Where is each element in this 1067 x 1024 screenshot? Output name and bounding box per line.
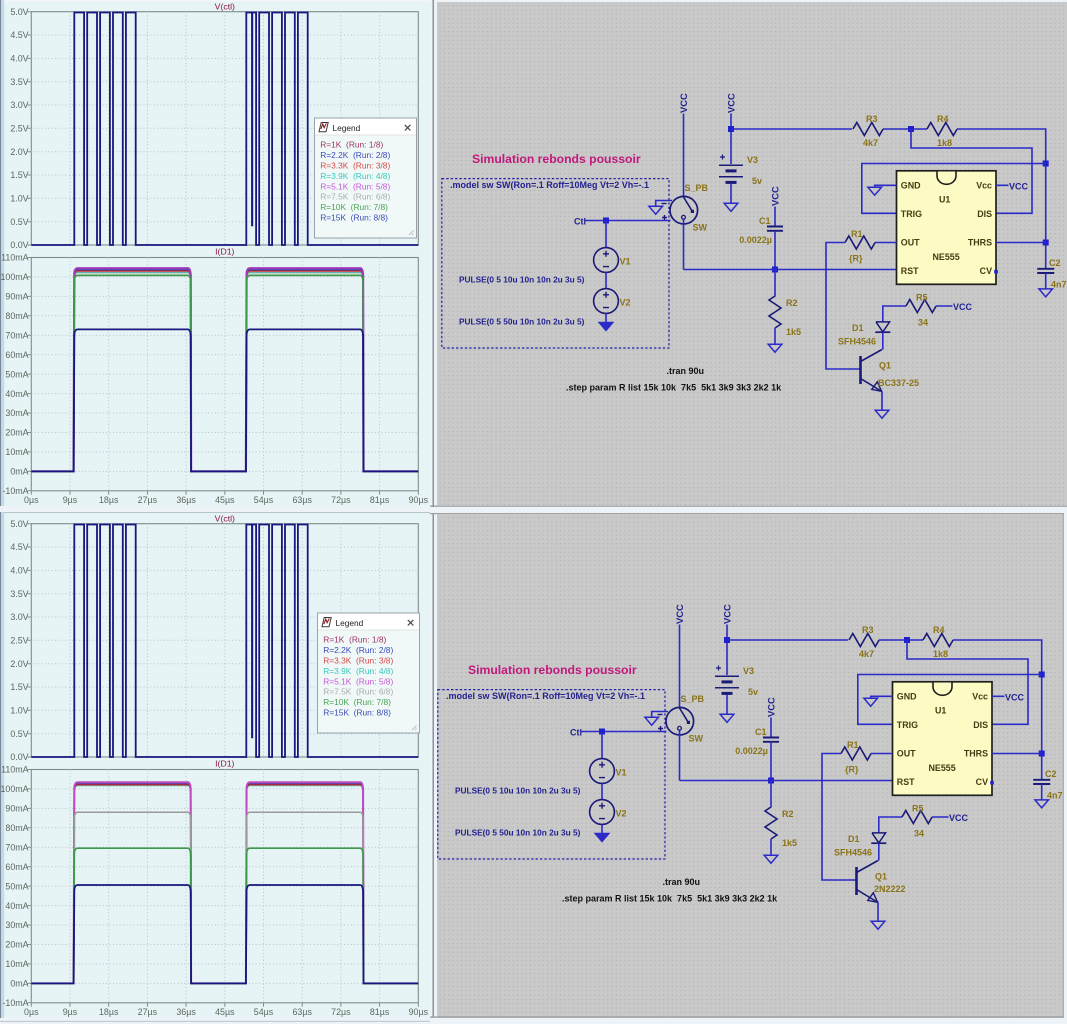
axis ticks <box>27 524 418 1007</box>
svg-text:0mA: 0mA <box>10 467 28 477</box>
svg-text:BC337-25: BC337-25 <box>878 378 919 388</box>
svg-text:30mA: 30mA <box>5 408 28 418</box>
svg-text:9µs: 9µs <box>63 1007 78 1017</box>
schematic window chrome <box>430 0 1067 512</box>
trace I(D1) level 102.1mA <box>31 785 418 984</box>
svg-text:54µs: 54µs <box>254 1007 274 1017</box>
svg-text:0.0V: 0.0V <box>10 240 28 250</box>
svg-text:4.0V: 4.0V <box>10 54 28 64</box>
plot pane border <box>31 258 418 491</box>
schematic grid background <box>437 2 1067 505</box>
trace I(D1) level 102.6mA <box>31 272 418 472</box>
svg-text:100mA: 100mA <box>0 784 28 794</box>
trace I(D1) level 103.5mA <box>31 270 418 471</box>
plot window background <box>0 513 430 1018</box>
svg-text:18µs: 18µs <box>99 495 119 505</box>
trace I(D1) level 104.5mA <box>31 268 418 471</box>
vertical gridlines <box>70 12 380 491</box>
svg-text:36µs: 36µs <box>176 495 196 505</box>
svg-text:3.5V: 3.5V <box>10 589 28 599</box>
svg-text:0.0V: 0.0V <box>10 752 28 762</box>
svg-text:81µs: 81µs <box>370 1007 390 1017</box>
horizontal gridlines <box>31 35 418 471</box>
trace V(ctl) <box>31 525 418 758</box>
svg-text:V(ctl): V(ctl) <box>215 2 235 12</box>
trace I(D1) level 101.7mA <box>31 786 418 984</box>
plot window background <box>0 0 430 506</box>
svg-text:20mA: 20mA <box>5 428 28 438</box>
svg-text:10mA: 10mA <box>5 447 28 457</box>
vertical gridlines <box>70 524 380 1003</box>
trace I(D1) level 69.5mA <box>31 848 418 983</box>
svg-text:3.5V: 3.5V <box>10 77 28 87</box>
svg-text:90mA: 90mA <box>5 292 28 302</box>
trace I(D1) level 50.6mA <box>31 885 418 983</box>
plot pane border <box>31 12 418 245</box>
svg-text:70mA: 70mA <box>5 331 28 341</box>
schematic grid background <box>437 514 1063 1016</box>
trace I(D1) level 103.9mA <box>31 269 418 471</box>
svg-text:4.0V: 4.0V <box>10 566 28 576</box>
svg-text:0µs: 0µs <box>24 1007 39 1017</box>
svg-text:5.0V: 5.0V <box>10 519 28 529</box>
svg-text:I(D1): I(D1) <box>215 759 234 769</box>
svg-text:54µs: 54µs <box>254 495 274 505</box>
svg-text:110mA: 110mA <box>1 765 29 775</box>
svg-text:2.0V: 2.0V <box>10 659 28 669</box>
svg-text:110mA: 110mA <box>1 253 29 263</box>
svg-text:9µs: 9µs <box>63 495 78 505</box>
svg-text:50mA: 50mA <box>5 881 28 891</box>
svg-text:5.0V: 5.0V <box>10 7 28 17</box>
svg-text:20mA: 20mA <box>5 940 28 950</box>
svg-text:1.0V: 1.0V <box>10 706 28 716</box>
svg-text:45µs: 45µs <box>215 495 235 505</box>
trace V(ctl) <box>31 13 418 246</box>
svg-text:81µs: 81µs <box>370 495 390 505</box>
svg-text:2.5V: 2.5V <box>10 124 28 134</box>
svg-text:3.0V: 3.0V <box>10 100 28 110</box>
svg-text:18µs: 18µs <box>99 1007 119 1017</box>
svg-text:30mA: 30mA <box>5 920 28 930</box>
trace I(D1) level 102.6mA <box>31 784 418 984</box>
svg-text:100mA: 100mA <box>0 272 28 282</box>
svg-text:60mA: 60mA <box>5 350 28 360</box>
trace I(D1) level 102.2mA <box>31 273 418 472</box>
svg-text:0mA: 0mA <box>10 979 28 989</box>
svg-text:80mA: 80mA <box>5 311 28 321</box>
svg-text:70mA: 70mA <box>5 843 28 853</box>
svg-text:0.5V: 0.5V <box>10 729 28 739</box>
trace I(D1) level 103.0mA <box>31 783 418 983</box>
svg-text:2.0V: 2.0V <box>10 147 28 157</box>
svg-text:50mA: 50mA <box>5 369 28 379</box>
svg-text:27µs: 27µs <box>138 495 158 505</box>
svg-text:0µs: 0µs <box>24 495 39 505</box>
svg-text:90mA: 90mA <box>5 804 28 814</box>
svg-text:4.5V: 4.5V <box>10 30 28 40</box>
svg-text:80mA: 80mA <box>5 823 28 833</box>
svg-text:3.0V: 3.0V <box>10 612 28 622</box>
svg-text:40mA: 40mA <box>5 901 28 911</box>
svg-text:10mA: 10mA <box>5 959 28 969</box>
svg-text:27µs: 27µs <box>138 1007 158 1017</box>
plot pane border <box>31 524 418 757</box>
svg-text:45µs: 45µs <box>215 1007 235 1017</box>
svg-text:4.5V: 4.5V <box>10 542 28 552</box>
axis labels <box>0 519 428 1017</box>
svg-text:72µs: 72µs <box>331 495 351 505</box>
trace I(D1) level 103.4mA <box>31 782 418 983</box>
svg-text:90µs: 90µs <box>409 495 429 505</box>
horizontal gridlines <box>31 547 418 983</box>
trace I(D1) level 73.0mA <box>31 329 418 471</box>
svg-text:I(D1): I(D1) <box>215 247 234 257</box>
axis ticks <box>27 12 418 495</box>
svg-text:V(ctl): V(ctl) <box>215 514 235 524</box>
svg-text:1.5V: 1.5V <box>10 682 28 692</box>
trace I(D1) level 103.0mA <box>31 271 418 471</box>
svg-text:60mA: 60mA <box>5 862 28 872</box>
legend window <box>315 118 417 238</box>
svg-text:63µs: 63µs <box>292 495 312 505</box>
svg-text:36µs: 36µs <box>176 1007 196 1017</box>
schematic window chrome <box>430 512 1067 1024</box>
plot pane border <box>31 770 418 1003</box>
svg-text:2.5V: 2.5V <box>10 636 28 646</box>
svg-text:90µs: 90µs <box>409 1007 429 1017</box>
svg-text:72µs: 72µs <box>331 1007 351 1017</box>
trace I(D1) level 88.0mA <box>31 812 418 983</box>
trace I(D1) level 100.8mA <box>31 275 418 471</box>
axis labels <box>0 7 428 505</box>
svg-text:1.5V: 1.5V <box>10 170 28 180</box>
svg-text:1.0V: 1.0V <box>10 194 28 204</box>
svg-text:40mA: 40mA <box>5 389 28 399</box>
legend window <box>318 613 420 733</box>
svg-text:2N2222: 2N2222 <box>874 884 906 894</box>
svg-text:63µs: 63µs <box>292 1007 312 1017</box>
svg-text:0.5V: 0.5V <box>10 217 28 227</box>
